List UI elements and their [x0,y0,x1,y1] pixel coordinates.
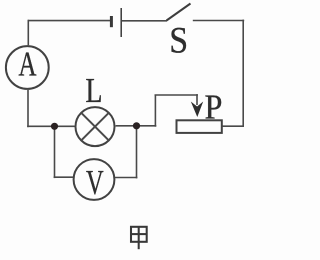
svg-text:P: P [205,88,223,127]
svg-text:L: L [85,71,102,110]
svg-text:A: A [18,45,36,84]
svg-text:V: V [86,163,104,202]
svg-text:S: S [169,20,188,60]
